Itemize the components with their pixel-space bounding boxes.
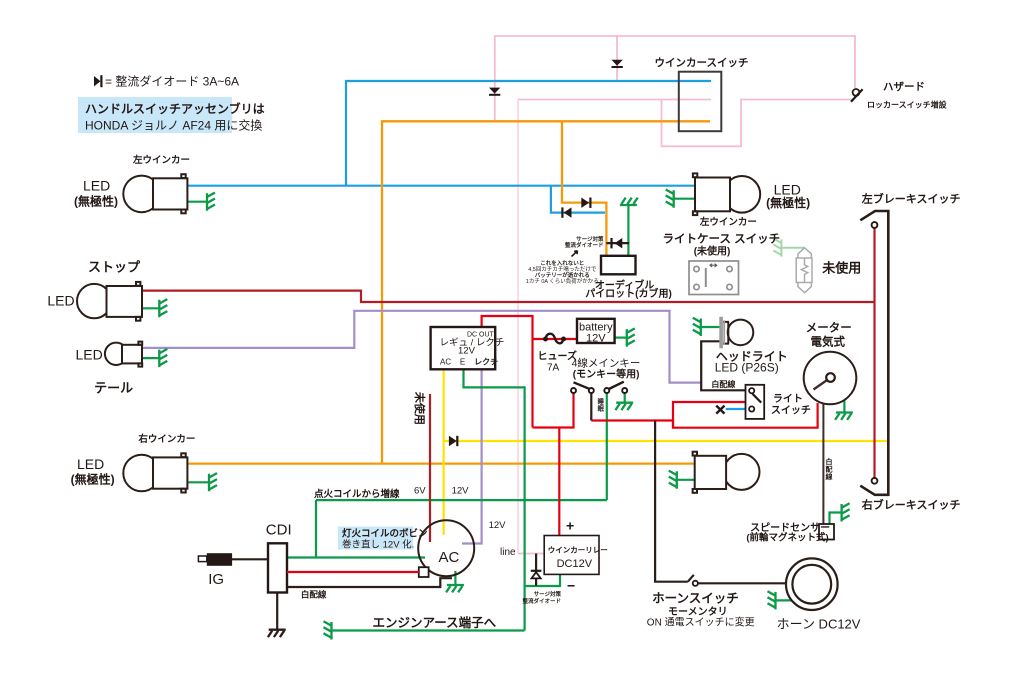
svg-text:これを入れないと: これを入れないと bbox=[540, 259, 584, 267]
svg-text:線: 線 bbox=[826, 472, 833, 481]
svg-text:睡: 睡 bbox=[598, 397, 605, 406]
svg-text:(モンキー等用): (モンキー等用) bbox=[573, 368, 640, 381]
svg-text:IG: IG bbox=[208, 571, 224, 588]
svg-text:= 整流ダイオード 3A~6A: = 整流ダイオード 3A~6A bbox=[105, 74, 239, 89]
svg-text:1カチ 0A くらい負荷がかかる: 1カチ 0A くらい負荷がかかる bbox=[526, 277, 599, 285]
svg-text:ロッカースイッチ増設: ロッカースイッチ増設 bbox=[867, 100, 948, 110]
svg-text:12V: 12V bbox=[489, 520, 507, 531]
svg-text:CDI: CDI bbox=[266, 522, 292, 539]
svg-text:E: E bbox=[460, 358, 465, 367]
svg-text:12V: 12V bbox=[458, 345, 476, 356]
svg-text:点火コイルから増線: 点火コイルから増線 bbox=[314, 488, 400, 500]
svg-text:右ブレーキスイッチ: 右ブレーキスイッチ bbox=[861, 498, 961, 512]
svg-text:ホーンスイッチ: ホーンスイッチ bbox=[652, 592, 739, 606]
svg-text:配: 配 bbox=[826, 465, 833, 474]
svg-text:バッテリーが逝かれる: バッテリーが逝かれる bbox=[535, 271, 590, 279]
svg-text:(無極性): (無極性) bbox=[766, 195, 810, 210]
svg-text:7A: 7A bbox=[547, 363, 560, 374]
svg-text:LED: LED bbox=[77, 456, 104, 472]
svg-text:ON 通電スイッチに変更: ON 通電スイッチに変更 bbox=[647, 616, 755, 629]
svg-text:(無極性): (無極性) bbox=[74, 194, 118, 209]
svg-text:(未使用): (未使用) bbox=[694, 245, 731, 258]
svg-text:右ウインカー: 右ウインカー bbox=[137, 433, 195, 445]
svg-text:ハザード: ハザード bbox=[883, 81, 925, 93]
svg-text:ストップ: ストップ bbox=[88, 260, 141, 275]
svg-text:LED: LED bbox=[83, 178, 110, 194]
svg-text:レクチ: レクチ bbox=[474, 357, 498, 367]
svg-text:巻き直し 12V 化.: 巻き直し 12V 化. bbox=[342, 539, 414, 551]
svg-text:白配線: 白配線 bbox=[301, 590, 327, 600]
svg-text:灯火コイルのボビン: 灯火コイルのボビン bbox=[342, 528, 428, 540]
svg-text:4線メインキー: 4線メインキー bbox=[572, 357, 641, 370]
svg-text:パイロット(カブ用): パイロット(カブ用) bbox=[585, 287, 672, 300]
svg-text:12V: 12V bbox=[452, 486, 470, 497]
svg-text:6V: 6V bbox=[414, 486, 426, 497]
svg-text:整流ダイオード: 整流ダイオード bbox=[565, 241, 604, 249]
svg-text:DC12V: DC12V bbox=[557, 558, 593, 570]
svg-text:テール: テール bbox=[94, 381, 133, 396]
svg-text:4,5回カチカチ鳴っただけで: 4,5回カチカチ鳴っただけで bbox=[528, 265, 597, 273]
svg-text:+: + bbox=[566, 518, 574, 534]
svg-text:HONDA ジョルノ AF24 用に交換: HONDA ジョルノ AF24 用に交換 bbox=[85, 118, 262, 133]
svg-text:−: − bbox=[567, 578, 575, 594]
svg-text:サージ対策: サージ対策 bbox=[576, 235, 604, 243]
svg-text:ウインカースイッチ: ウインカースイッチ bbox=[655, 57, 749, 69]
svg-text:line: line bbox=[500, 547, 516, 558]
svg-text:LED (P26S): LED (P26S) bbox=[715, 361, 779, 375]
svg-text:(無極性): (無極性) bbox=[71, 472, 115, 487]
svg-text:モーメンタリ: モーメンタリ bbox=[668, 606, 728, 618]
svg-text:未使用: 未使用 bbox=[821, 261, 861, 276]
svg-text:白: 白 bbox=[826, 457, 833, 466]
svg-text:スイッチ: スイッチ bbox=[771, 405, 811, 417]
svg-text:ホーン DC12V: ホーン DC12V bbox=[777, 617, 861, 632]
svg-text:LED: LED bbox=[76, 347, 103, 363]
svg-text:ライト: ライト bbox=[773, 393, 803, 405]
svg-text:整流ダイオード: 整流ダイオード bbox=[522, 597, 561, 605]
svg-text:ハンドルスイッチアッセンブリは: ハンドルスイッチアッセンブリは bbox=[85, 101, 265, 116]
svg-text:眠: 眠 bbox=[598, 404, 605, 413]
svg-text:白配線: 白配線 bbox=[711, 379, 735, 389]
svg-text:AC: AC bbox=[440, 358, 451, 367]
svg-text:左ウインカー: 左ウインカー bbox=[699, 216, 757, 228]
svg-text:12V: 12V bbox=[586, 333, 606, 345]
svg-text:サージ対策: サージ対策 bbox=[534, 590, 562, 598]
svg-text:メーター: メーター bbox=[806, 321, 852, 335]
svg-text:左ブレーキスイッチ: 左ブレーキスイッチ bbox=[861, 192, 961, 206]
svg-text:ライトケース スイッチ: ライトケース スイッチ bbox=[663, 233, 781, 246]
svg-text:左ウインカー: 左ウインカー bbox=[132, 154, 190, 166]
svg-text:エンジンアース端子へ: エンジンアース端子へ bbox=[373, 615, 497, 630]
svg-text:ウインカーリレー: ウインカーリレー bbox=[548, 546, 608, 555]
svg-text:(前輪マグネット式): (前輪マグネット式) bbox=[746, 532, 828, 544]
svg-text:電気式: 電気式 bbox=[811, 335, 846, 349]
svg-text:AC: AC bbox=[439, 549, 460, 566]
svg-text:未使用: 未使用 bbox=[413, 391, 427, 425]
svg-text:LED: LED bbox=[47, 293, 74, 309]
